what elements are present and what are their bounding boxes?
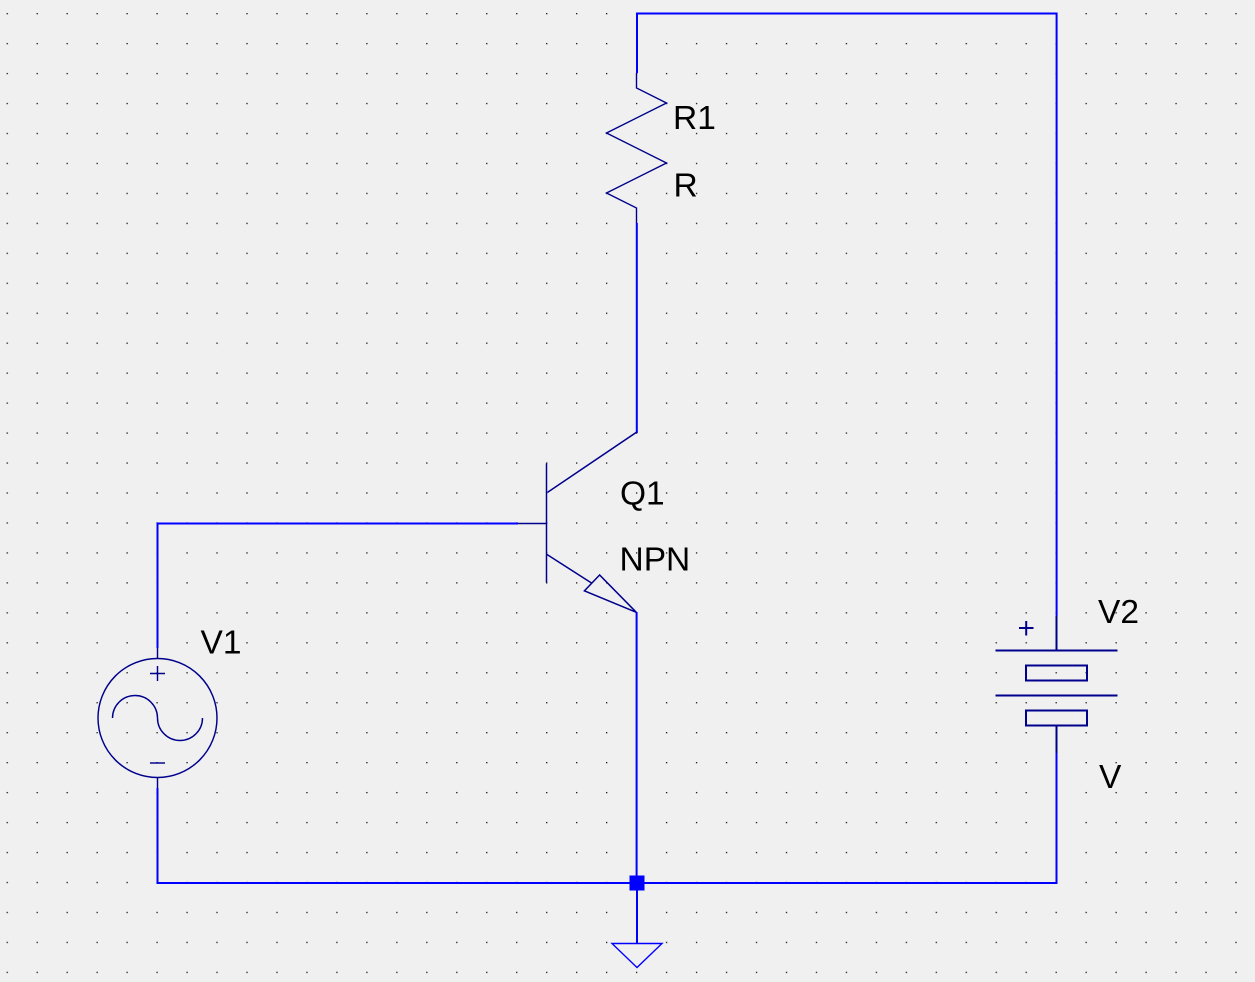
svg-text:R1: R1 — [673, 100, 716, 137]
wire: vertical from R1 top pin to top-left corner — [636, 14, 638, 74]
svg-text:V1: V1 — [201, 625, 242, 662]
svg-text:V: V — [1099, 759, 1122, 796]
junction node (V1/V2/emitter/ground) — [630, 876, 645, 891]
wire: left vertical down to V1 top — [157, 523, 159, 649]
wire: Q1 emitter down to junction — [636, 612, 638, 883]
wire: top horizontal from corner to V2 branch — [636, 13, 1058, 15]
wire: right vertical from bottom corner up to V2 bottom lead — [1056, 753, 1058, 884]
wire: bottom horizontal right (junction to V2) — [637, 882, 1058, 884]
svg-text:NPN: NPN — [620, 542, 691, 579]
wire: R1 bottom to Q1 collector — [636, 223, 638, 433]
svg-text:V2: V2 — [1098, 594, 1139, 631]
wire: V1 bottom to bottom-left corner — [157, 788, 159, 884]
svg-text:R: R — [674, 168, 698, 205]
wire: base of Q1 to left branch — [157, 523, 519, 525]
resistor R1 — [607, 73, 667, 223]
battery V2 — [996, 616, 1118, 753]
voltage source V1 (sine) — [98, 648, 217, 788]
transistor Q1 (NPN) — [518, 432, 637, 612]
svg-text:Q1: Q1 — [620, 476, 665, 513]
wire: right vertical from top corner down to V2 top lead — [1056, 13, 1058, 617]
wire: junction down to ground — [636, 883, 638, 943]
ground — [612, 944, 662, 968]
wire: bottom horizontal left (V1 to junction) — [157, 882, 638, 884]
